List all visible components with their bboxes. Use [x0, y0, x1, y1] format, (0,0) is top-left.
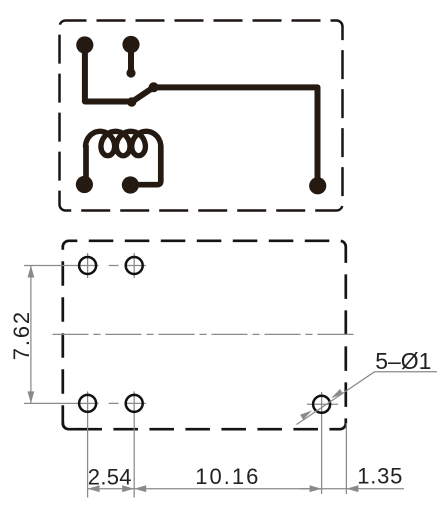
hole H5 (bottom-right)	[313, 396, 330, 413]
crosshair + extension for hole H5	[307, 392, 346, 494]
hole H2 (top-second)	[126, 257, 143, 274]
hole H3 (bottom-left)	[79, 395, 96, 412]
leader arrow lower (points at hole H5)	[300, 410, 312, 419]
hole H1 (top-left)	[79, 257, 96, 274]
coil right lead wire	[132, 146, 161, 185]
svg-text:5–Ø1: 5–Ø1	[375, 348, 431, 374]
crosshair line through bottom hole row	[24, 391, 146, 497]
armature blade (switch)	[132, 87, 154, 102]
coil pin dot A (bottom-left)	[76, 176, 93, 193]
wire NC contact to right pin	[154, 87, 318, 185]
relay outline box (dashed)	[60, 21, 343, 211]
PCB layout outline box (dashed)	[63, 241, 346, 429]
bottom dimension line	[88, 488, 404, 490]
armature pivot junction bulge	[127, 97, 136, 106]
svg-text:10.16: 10.16	[195, 464, 260, 489]
label 5-diameter1 leader underline	[375, 371, 438, 373]
svg-text:1.35: 1.35	[357, 464, 403, 489]
coil L1 winding	[86, 131, 161, 155]
label 5-diameter1 leader diagonal	[297, 372, 375, 425]
leader arrow upper (points at hole H5)	[331, 389, 343, 398]
dimension 7.62 line	[30, 266, 32, 404]
crosshair line through top hole row	[24, 253, 146, 278]
armature contact bulge	[149, 82, 159, 92]
coil left lead wire	[83, 146, 89, 181]
NO contact tip bulge	[126, 68, 135, 77]
pin dot NO (top, second)	[122, 36, 139, 53]
NO contact stub wire	[128, 45, 134, 73]
svg-text:7.62: 7.62	[9, 310, 34, 360]
pin dot NC/right (bottom-right)	[309, 177, 326, 194]
hole H4 (bottom-second)	[126, 395, 143, 412]
coil pin dot B (bottom-middle)	[122, 176, 139, 193]
pin dot COM (top-left)	[76, 36, 93, 53]
bottom dimension arrows	[88, 485, 359, 492]
dimension 7.62 arrows	[28, 266, 35, 404]
svg-text:2.54: 2.54	[88, 465, 132, 490]
wire COM to armature pivot	[85, 45, 132, 102]
horizontal centre line (dash-dot)	[53, 333, 356, 335]
PCB outline corner patch (bottom-left)	[63, 422, 79, 430]
